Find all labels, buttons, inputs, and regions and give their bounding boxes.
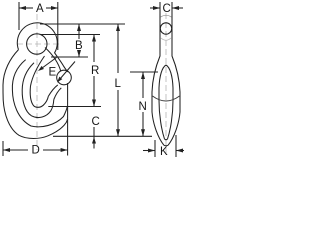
right view eye hole circle bbox=[160, 23, 171, 34]
dim A line bbox=[19, 6, 58, 10]
extension line hole top (R top) bbox=[41, 34, 100, 36]
neck curve 4 throat inner edge bbox=[31, 56, 45, 86]
dim A right extension / projection line bbox=[57, 2, 59, 50]
svg-text:A: A bbox=[36, 3, 44, 15]
right view shank right edge bbox=[168, 14, 180, 145]
right view bottom tip arc bbox=[164, 144, 168, 146]
bowl outer arc bbox=[3, 100, 67, 138]
right view shank left edge bbox=[152, 14, 164, 145]
dim B bbox=[77, 24, 81, 57]
right view eye boss arc bbox=[161, 38, 171, 40]
bowl slot inner arc bbox=[30, 86, 48, 107]
svg-text:E: E bbox=[49, 67, 57, 79]
dim L bbox=[116, 24, 120, 136]
dim D right extension line bbox=[67, 83, 69, 156]
dim R bbox=[92, 35, 96, 107]
dim E arrow upper (leader + head) bbox=[38, 58, 57, 72]
svg-text:K: K bbox=[160, 146, 168, 158]
dim E arrow lower (leader + head) bbox=[57, 62, 75, 83]
dim K bbox=[143, 149, 184, 153]
dim C lower-left bottom arrow (outside, pointing up) bbox=[92, 127, 96, 149]
right view eye cap arc bbox=[161, 15, 172, 17]
centerline right view vertical bbox=[165, 13, 167, 157]
right view notch left leg bbox=[159, 65, 166, 139]
bowl arc 2 bbox=[12, 90, 67, 127]
centerline left view horizontal bbox=[17, 43, 62, 45]
dim C left extension line bbox=[159, 2, 161, 14]
groove right edge to tip bbox=[54, 88, 62, 100]
svg-text:L: L bbox=[115, 78, 122, 90]
dim K right extension line bbox=[175, 135, 177, 157]
dim N bbox=[141, 72, 145, 136]
extension line notch apex (N top) bbox=[130, 71, 158, 73]
neck curve outer-left bbox=[3, 50, 19, 100]
svg-text:R: R bbox=[91, 65, 99, 77]
extension line hole bottom (B bottom) bbox=[51, 56, 88, 58]
right view notch right leg bbox=[166, 65, 173, 139]
dim A left extension line bbox=[18, 2, 20, 30]
dim C right extension line bbox=[171, 2, 173, 14]
bottom datum extension line bbox=[53, 135, 152, 137]
hook tip circle bbox=[57, 70, 72, 85]
neck curve 3 bbox=[22, 63, 34, 90]
svg-text:D: D bbox=[32, 145, 40, 157]
svg-text:N: N bbox=[139, 101, 147, 113]
eye hole circle bbox=[27, 34, 47, 54]
centerline left view vertical bbox=[36, 14, 38, 150]
tip limb inner edge bbox=[45, 48, 61, 72]
svg-text:C: C bbox=[92, 116, 100, 128]
bowl arc 3 bbox=[22, 90, 54, 118]
neck curve 2 bbox=[12, 60, 25, 90]
right view notch bottom bbox=[165, 138, 168, 141]
extension line eye top (B top, L top) bbox=[40, 23, 125, 25]
dim D bbox=[3, 148, 68, 152]
dim K left extension line bbox=[154, 140, 156, 157]
svg-text:C: C bbox=[163, 3, 171, 15]
slot right edge to tip bbox=[48, 85, 58, 97]
svg-text:B: B bbox=[75, 40, 83, 52]
dim D left extension line bbox=[2, 141, 4, 156]
eye outer outline merging into tip limb bbox=[17, 23, 68, 72]
right view transverse arc bbox=[153, 96, 180, 101]
extension line slot bottom (R bottom) bbox=[48, 106, 101, 108]
dim C top-right bbox=[150, 6, 183, 10]
